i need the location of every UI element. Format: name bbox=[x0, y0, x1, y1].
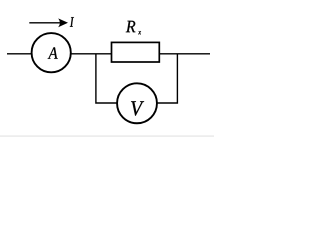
voltmeter V1 circle bbox=[117, 83, 157, 123]
current arrow shaft bbox=[29, 22, 62, 24]
current arrow head bbox=[58, 18, 68, 27]
label I (current) bbox=[70, 17, 74, 27]
wire left junction vertical drop and bottom branch to voltmeter bbox=[96, 54, 117, 103]
ammeter A1 circle bbox=[32, 33, 71, 72]
label Rx: subscript x bbox=[138, 31, 141, 34]
wire right junction vertical drop and bottom branch from voltmeter bbox=[157, 54, 177, 103]
label V (voltmeter) bbox=[131, 101, 144, 115]
resistor Rx box bbox=[112, 42, 160, 62]
faint bottom rule bbox=[0, 135, 214, 137]
wire main horizontal from left terminal through ammeter and resistor to right terminal bbox=[7, 53, 210, 55]
label Rx: R bbox=[126, 21, 136, 32]
label A (ammeter) bbox=[48, 47, 58, 58]
